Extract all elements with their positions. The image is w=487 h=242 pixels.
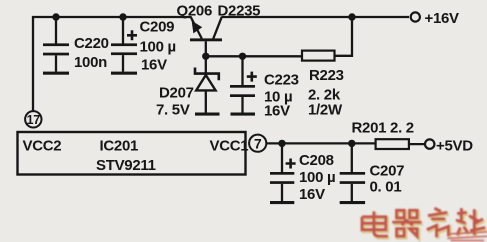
label IC201 — [100, 138, 139, 155]
svg-text:Q206: Q206 — [177, 3, 213, 20]
capacitor C220 — [43, 17, 69, 72]
wire base rail to R223 — [206, 55, 302, 57]
svg-text:D207: D207 — [159, 85, 194, 102]
svg-text:C208: C208 — [299, 152, 334, 169]
ground under C208 — [270, 201, 294, 204]
wire pin 7 rail to R201 — [266, 142, 375, 144]
svg-text:16V: 16V — [264, 103, 290, 120]
label Q206 — [177, 3, 213, 20]
label C208 100u 16V — [299, 152, 335, 203]
capacitor C207 — [340, 143, 365, 201]
label +16V — [425, 10, 460, 27]
label R223 2.2k 1/2W — [308, 67, 344, 119]
node junction C208 — [278, 140, 285, 147]
capacitor C223 (polarized) — [230, 56, 257, 112]
svg-text:+5VD: +5VD — [436, 138, 473, 155]
wire top rail right of Q206 to +16V terminal — [222, 16, 410, 18]
svg-text:VCC2: VCC2 — [23, 138, 62, 155]
IC U201 box — [18, 132, 246, 175]
svg-text:C207: C207 — [370, 163, 405, 180]
terminal +5VD — [425, 139, 434, 148]
svg-text:R201 2. 2: R201 2. 2 — [352, 120, 414, 137]
terminal +16V — [411, 12, 420, 21]
watermark red logo — [362, 208, 487, 240]
pin 17 — [25, 111, 41, 127]
svg-text:VCC1: VCC1 — [210, 138, 249, 155]
svg-text:100 µ: 100 µ — [299, 169, 335, 186]
label C207 0.01 — [370, 163, 405, 196]
svg-text:0. 01: 0. 01 — [370, 179, 402, 196]
svg-text:1/2W: 1/2W — [308, 102, 343, 119]
label D207 7.5V — [156, 85, 194, 119]
node junction R223 branch on top rail — [348, 13, 355, 20]
svg-text:STV9211: STV9211 — [96, 157, 156, 174]
ground under C220 — [43, 72, 69, 75]
node base junction of Q206 — [202, 53, 209, 60]
svg-text:16V: 16V — [141, 57, 167, 74]
svg-text:16V: 16V — [299, 186, 325, 203]
label C220 100n — [74, 35, 109, 71]
svg-text:C220: C220 — [74, 35, 109, 52]
label STV9211 — [96, 157, 156, 174]
node junction C207 — [348, 140, 355, 147]
label D2235 — [218, 3, 261, 20]
capacitor C209 (polarized) — [111, 17, 137, 72]
node junction C209 on top rail — [119, 13, 126, 20]
transistor Q206 D2235 — [190, 17, 222, 57]
resistor R223 — [302, 17, 352, 61]
svg-text:C223: C223 — [264, 72, 299, 89]
svg-text:100 µ: 100 µ — [140, 39, 176, 56]
label VCC2 — [23, 138, 62, 155]
svg-text:R223: R223 — [309, 67, 344, 84]
ground under C223 — [231, 113, 256, 116]
svg-text:17: 17 — [27, 113, 41, 127]
ground under D207 — [195, 113, 220, 116]
label +5VD — [436, 138, 473, 155]
node junction C220 on top rail — [52, 13, 59, 20]
svg-text:7. 5V: 7. 5V — [156, 102, 190, 119]
label C209 100u 16V — [140, 19, 176, 74]
label R201 2.2 — [352, 120, 414, 137]
capacitor C208 (polarized) — [270, 143, 296, 201]
pin 7 — [249, 135, 266, 152]
node junction C223 — [239, 53, 246, 60]
label VCC1 — [210, 138, 249, 155]
svg-text:C209: C209 — [140, 19, 175, 36]
svg-text:D2235: D2235 — [218, 3, 261, 20]
svg-text:IC201: IC201 — [100, 138, 139, 155]
ground under C209 — [111, 72, 137, 75]
svg-text:+16V: +16V — [425, 10, 460, 27]
resistor R201 — [376, 139, 425, 149]
zener diode D207 — [195, 56, 219, 112]
label C223 10u 16V — [264, 72, 299, 120]
wire left rail from pin 17 up and across top — [33, 17, 191, 111]
svg-text:100n: 100n — [74, 54, 107, 71]
ground under C207 — [340, 201, 365, 204]
svg-text:7: 7 — [254, 137, 262, 152]
